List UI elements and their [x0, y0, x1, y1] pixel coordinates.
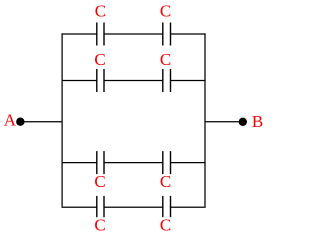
svg-text:C: C — [94, 172, 105, 191]
svg-text:C: C — [94, 216, 105, 235]
svg-text:C: C — [160, 50, 171, 69]
wire: terminal A lead — [20, 121, 62, 123]
wire: right vertical rail — [204, 33, 206, 207]
wire: branch 1 segments (top row, y=34) — [62, 33, 206, 35]
svg-text:C: C — [160, 1, 171, 20]
wire: branch 3 segments (y=162.6) — [62, 162, 206, 164]
svg-text:C: C — [160, 172, 171, 191]
wire: branch 4 segments (bottom row, y=207) — [62, 206, 206, 208]
node B terminal dot — [239, 118, 247, 126]
node A terminal dot — [16, 118, 24, 126]
capacitor C1 (branch 1 left) plates — [97, 23, 104, 46]
capacitor C3 (branch 2 left) plates — [97, 69, 104, 92]
wire: left vertical rail — [61, 33, 63, 207]
capacitor C5 (branch 3 left) plates — [97, 151, 104, 174]
svg-text:C: C — [94, 50, 105, 69]
svg-text:C: C — [95, 1, 106, 20]
svg-text:A: A — [4, 110, 17, 129]
capacitor C8 (branch 4 right) plates — [163, 196, 171, 217]
svg-text:C: C — [160, 216, 171, 235]
capacitor C6 (branch 3 right) plates — [163, 151, 171, 174]
svg-text:B: B — [252, 112, 263, 131]
capacitor C2 (branch 1 right) plates — [163, 23, 171, 46]
capacitor C4 (branch 2 right) plates — [163, 69, 171, 92]
wire: branch 2 segments (y=80.5) — [62, 80, 206, 82]
capacitor C7 (branch 4 left) plates — [97, 196, 104, 217]
wire: terminal B lead — [205, 121, 243, 123]
